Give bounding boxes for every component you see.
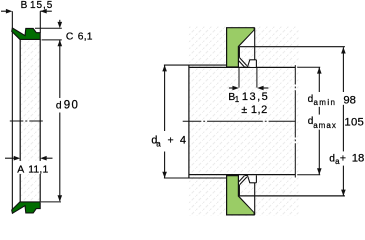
dimension A right arrowhead bbox=[40, 156, 46, 161]
dimension B right arrowhead bbox=[40, 9, 46, 14]
shaft right break line (dash-dot) bbox=[294, 65, 296, 177]
seal section bottom half (green, mirrored) bbox=[12, 202, 41, 213]
label d_amin bbox=[307, 93, 338, 106]
svg-text:d: d bbox=[308, 94, 314, 105]
label 105 bbox=[345, 115, 365, 127]
svg-text:4: 4 bbox=[180, 135, 186, 147]
dimension d_a+4 top arrowhead bbox=[162, 65, 167, 71]
hatch fill of shaft/housing block bbox=[189, 27, 299, 217]
shaft left end face bbox=[188, 65, 190, 178]
wall face line bottom bbox=[254, 183, 256, 215]
svg-text:90: 90 bbox=[64, 100, 79, 112]
sleeve (d_a+4) top line + extension bbox=[164, 64, 227, 66]
V-ring bottom: lip contact face bbox=[238, 185, 240, 196]
V-ring bottom: hinge groove bbox=[245, 176, 250, 183]
dimension d line bbox=[59, 40, 61, 98]
V-ring bottom: body right face bbox=[255, 175, 257, 183]
svg-text:98: 98 bbox=[343, 94, 356, 106]
svg-text:B: B bbox=[21, 0, 28, 11]
dimension d_a min/max bottom arrowhead bbox=[317, 168, 322, 174]
dimension d_a+4 line lower bbox=[164, 152, 166, 179]
dimension A line left tail bbox=[5, 157, 14, 159]
label B1 13,5 bbox=[227, 92, 271, 104]
dimension B1 right tail bbox=[264, 87, 269, 89]
label d 90 bbox=[54, 100, 80, 111]
label d_amax bbox=[306, 115, 338, 129]
shaft surface top bbox=[189, 66, 295, 68]
wall face line top bbox=[254, 28, 256, 60]
bore silhouette line right bbox=[39, 39, 41, 202]
svg-text:+: + bbox=[340, 152, 346, 164]
V-ring top: lip contact face bbox=[238, 47, 240, 58]
label 98 bbox=[342, 92, 357, 104]
svg-text:15,5: 15,5 bbox=[30, 0, 53, 11]
dimension d_a+4 bottom arrowhead bbox=[162, 172, 167, 178]
counterface wall bottom (green) bbox=[227, 176, 255, 215]
svg-text:a: a bbox=[156, 139, 161, 148]
dimension d_a min/max line bbox=[318, 67, 320, 92]
extension line B1 left bbox=[238, 67, 240, 87]
bore silhouette line left bbox=[19, 39, 21, 202]
svg-text:amax: amax bbox=[313, 121, 337, 130]
dimension C bottom / d top arrowhead (up) bbox=[58, 40, 63, 46]
svg-text:18: 18 bbox=[352, 153, 365, 165]
dimension A left arrowhead bbox=[14, 156, 20, 161]
V-ring installed, bottom: body interior white bbox=[250, 176, 256, 183]
V-ring top: lip band edge 2 bbox=[239, 61, 245, 67]
dimension d bottom arrowhead (down) bbox=[58, 195, 63, 201]
seal outer surface line / extension (dim d_a+18) top bbox=[239, 46, 345, 48]
svg-text:C: C bbox=[66, 31, 74, 42]
svg-text:amin: amin bbox=[314, 98, 337, 107]
svg-text:105: 105 bbox=[344, 116, 364, 128]
dimension C top arrowhead (down) bbox=[58, 22, 63, 28]
V-ring top: body right face bbox=[255, 60, 257, 68]
seal outer surface line / extension (dim d_a+18) bottom bbox=[239, 195, 345, 197]
dimension B left arrowhead bbox=[6, 9, 12, 14]
seal section top half (green) bbox=[12, 28, 41, 39]
label +-1,2 bbox=[240, 105, 269, 116]
label A 11,1 bbox=[14, 161, 47, 174]
svg-text:A: A bbox=[17, 164, 24, 175]
V-ring bottom: lip band edge 2 bbox=[239, 176, 245, 182]
dimension B line left tail bbox=[1, 10, 7, 12]
svg-text:+: + bbox=[168, 134, 174, 146]
extension line left (lip tips, dim B) bbox=[11, 11, 13, 210]
dimension B1 right arrowhead bbox=[257, 86, 263, 91]
dimension B1 left arrowhead bbox=[232, 86, 238, 91]
dimension d_a+18 line bbox=[342, 47, 344, 92]
V-ring top: lip band edge 1 bbox=[240, 58, 247, 66]
sleeve (d_a+4) bottom line + extension bbox=[164, 177, 227, 179]
svg-text:1,2: 1,2 bbox=[251, 104, 268, 116]
counterface wall top (green) bbox=[227, 28, 255, 67]
dimension C line upper tail bbox=[59, 20, 61, 23]
dimension B line right tail bbox=[40, 10, 52, 12]
dimension d_a+18 bottom arrowhead bbox=[341, 190, 346, 196]
extension line bottom (dim d) bbox=[41, 201, 61, 203]
wall chamfer clearance triangle top bbox=[239, 30, 254, 47]
dimension d_a+4 line upper bbox=[164, 65, 166, 131]
svg-text:11,1: 11,1 bbox=[28, 164, 48, 175]
shaft surface bottom bbox=[189, 174, 295, 176]
label d_a + 18 bbox=[328, 152, 364, 166]
V-ring installed, top: body interior white bbox=[250, 60, 256, 67]
svg-text:±: ± bbox=[241, 104, 247, 116]
hatch fill of ring bore region bbox=[21, 39, 40, 202]
V-ring top: hinge groove bbox=[245, 60, 250, 67]
dimension B1 left tail bbox=[229, 87, 233, 89]
V-ring top: body top edge bbox=[249, 59, 256, 61]
extension line right (dim B) bbox=[39, 11, 41, 33]
dimension d_a+18 top arrowhead bbox=[341, 47, 346, 53]
V-ring bottom: lip band edge 1 bbox=[240, 177, 247, 185]
extension line top (dim C) bbox=[35, 27, 62, 29]
wall chamfer clearance triangle bottom bbox=[239, 196, 254, 213]
svg-text:d: d bbox=[56, 101, 62, 112]
centreline of right figure bbox=[183, 120, 296, 122]
centreline of left figure bbox=[10, 120, 43, 122]
svg-text:6,1: 6,1 bbox=[78, 31, 93, 42]
extension line B1 right bbox=[256, 67, 258, 87]
svg-text:1: 1 bbox=[235, 95, 240, 104]
dimension d_a min/max top arrowhead bbox=[317, 67, 322, 73]
extension lines right (dim d_a min/max) bbox=[297, 66, 320, 68]
svg-text:13,5: 13,5 bbox=[242, 91, 269, 103]
V-ring bottom: body bottom edge bbox=[249, 182, 256, 184]
dimension A line right tail bbox=[47, 157, 53, 159]
extension line bottom (dims C and d) bbox=[42, 39, 62, 41]
